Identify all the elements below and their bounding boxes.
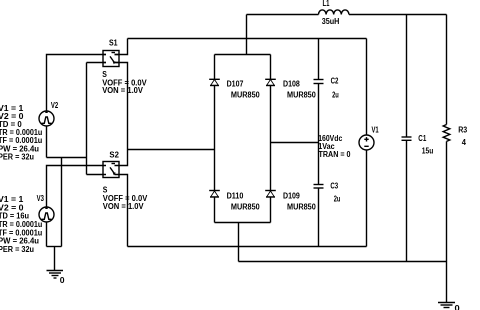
svg-text:C1: C1	[418, 134, 427, 143]
svg-text:D109: D109	[283, 191, 300, 200]
diode D110	[209, 191, 260, 212]
svg-text:PER = 32u: PER = 32u	[0, 152, 34, 161]
wire S2 ctrl- stub	[87, 174, 107, 176]
wire bridge bottom rail	[215, 222, 271, 224]
svg-text:TRAN = 0: TRAN = 0	[319, 150, 352, 159]
capacitor C1	[402, 15, 434, 262]
svg-text:15u: 15u	[422, 147, 434, 156]
svg-text:PER = 32u: PER = 32u	[0, 245, 34, 254]
wire bridge left rail	[214, 55, 216, 223]
svg-text:D107: D107	[227, 79, 244, 88]
diode D108	[265, 79, 316, 99]
svg-text:4: 4	[462, 138, 467, 147]
capacitor C3	[314, 181, 341, 246]
wire V2 minus down	[46, 126, 48, 158]
resistor R3	[443, 15, 468, 303]
pulse source V2	[39, 101, 59, 126]
svg-text:VON = 1.0V: VON = 1.0V	[103, 202, 145, 211]
dc source V1	[359, 39, 379, 247]
svg-text:R3: R3	[458, 126, 468, 135]
svg-text:V3: V3	[37, 194, 45, 203]
svg-text:VON = 1.0V: VON = 1.0V	[102, 86, 144, 95]
svg-text:MUR850: MUR850	[231, 90, 260, 99]
wire bridge top rail	[215, 54, 271, 56]
pulse source V3	[37, 194, 54, 222]
wire V2 minus horizontal	[47, 157, 87, 159]
svg-text:C3: C3	[330, 181, 338, 190]
wire S1 out bottom to S2 in top	[115, 63, 128, 166]
wire L1 feed down	[246, 15, 248, 55]
wire V2 plus to S1 ctrl+	[47, 55, 107, 112]
wire return rail y=246	[128, 246, 367, 248]
wire top rail left of L1	[247, 14, 319, 16]
svg-text:0: 0	[60, 276, 66, 285]
wire bridge mid bottom down	[238, 223, 240, 262]
svg-text:L1: L1	[323, 0, 331, 8]
wire top rail right of L1	[349, 14, 447, 16]
diode D109	[265, 191, 316, 212]
ground 0 left	[47, 271, 66, 286]
svg-text:D110: D110	[227, 191, 244, 200]
svg-text:MUR850: MUR850	[287, 90, 316, 99]
V2 parameter text	[0, 104, 43, 162]
wire ctrl- vertical x=86.5	[86, 63, 88, 175]
wire S1 ctrl- stub	[87, 62, 107, 64]
V1 value labels	[318, 134, 351, 159]
wire right mid tap	[271, 142, 319, 144]
svg-text:S2: S2	[109, 151, 119, 160]
wire bottom out rail y=261	[239, 261, 447, 263]
wire bridge right rail	[270, 55, 272, 223]
wire V3 minus down	[46, 222, 48, 247]
svg-text:2u: 2u	[332, 91, 339, 100]
svg-text:V2: V2	[51, 101, 59, 110]
inductor L1	[319, 0, 349, 26]
V3 parameter text	[0, 195, 43, 254]
svg-text:35uH: 35uH	[322, 17, 340, 26]
wire main rail y=38	[128, 38, 367, 40]
wire left ground link	[47, 246, 62, 248]
switch S1	[102, 39, 147, 96]
wire S1 out top to rail	[115, 39, 128, 55]
ground 0 right	[438, 303, 460, 310]
capacitor C2	[314, 39, 339, 185]
wire S2 out bottom down	[115, 175, 128, 247]
svg-text:C2: C2	[331, 76, 339, 85]
wire left mid tap	[128, 149, 215, 151]
svg-text:V1: V1	[372, 125, 380, 134]
diode D107	[209, 79, 260, 99]
svg-text:0: 0	[455, 304, 461, 310]
wire V3 plus to S2 ctrl+	[47, 166, 107, 208]
svg-text:2u: 2u	[334, 194, 341, 203]
svg-text:D108: D108	[283, 79, 300, 88]
switch S2	[103, 151, 148, 211]
wire left ground stub	[54, 247, 56, 271]
svg-text:S1: S1	[109, 39, 118, 48]
wire V2 minus to ground rail x=61.5	[61, 158, 63, 247]
svg-text:MUR850: MUR850	[231, 203, 260, 212]
svg-text:MUR850: MUR850	[287, 203, 316, 212]
